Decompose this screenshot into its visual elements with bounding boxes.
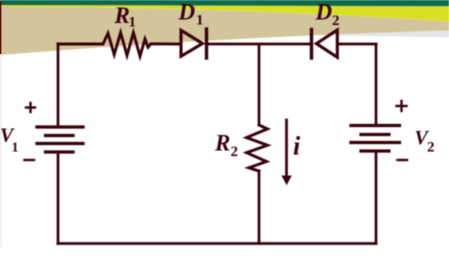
svg-text:D: D [315, 0, 333, 25]
svg-text:R: R [114, 3, 130, 28]
svg-text:D: D [178, 0, 196, 25]
svg-text:R: R [214, 131, 230, 156]
svg-text:2: 2 [332, 13, 340, 29]
svg-text:2: 2 [427, 140, 435, 156]
svg-text:1: 1 [196, 13, 204, 29]
svg-text:i: i [293, 132, 301, 161]
svg-text:1: 1 [129, 15, 137, 31]
svg-text:1: 1 [12, 141, 19, 156]
svg-text:2: 2 [231, 144, 239, 160]
